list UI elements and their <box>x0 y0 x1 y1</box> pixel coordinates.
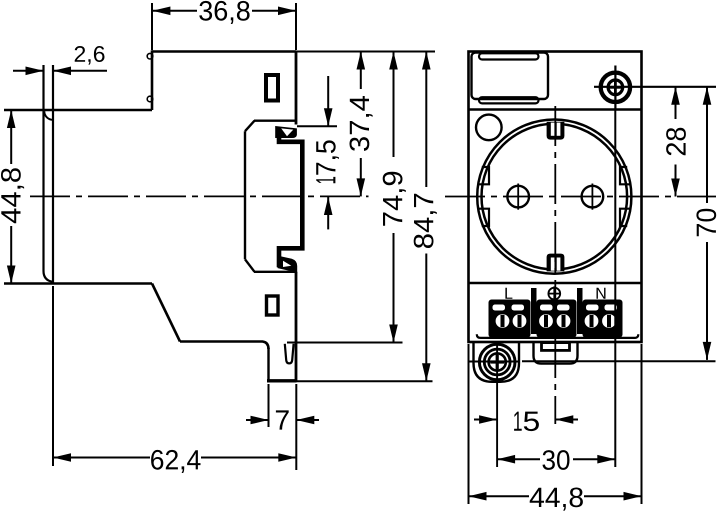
terminal screws group 3 <box>585 314 599 328</box>
vertical centerline of front view <box>554 106 556 424</box>
front plate rear face (right line of 2.6 wall) <box>52 65 54 284</box>
divider line below top section <box>469 108 642 110</box>
wire release slots group 1 <box>493 305 506 311</box>
horizontal centerline of left view <box>30 195 369 197</box>
dimension 28 (top screw to centerline) <box>666 87 686 197</box>
lower rectangular vent hole <box>267 296 279 315</box>
recess top chamfer <box>245 121 255 132</box>
left pin hole <box>507 186 529 208</box>
extension from top screw down to 30 dim <box>614 110 616 467</box>
dimension 7 (latch foot width) <box>246 384 319 470</box>
DIN-rail recess top edge <box>254 119 296 121</box>
dimension 2,6 (front plate thickness) <box>13 46 107 75</box>
terminal block group 2 (earth) <box>537 300 577 338</box>
top clip slot left <box>551 123 555 136</box>
clip lower slider bar <box>479 97 539 103</box>
DIN rail clip housing top-left <box>472 53 549 100</box>
terminal screws group 1 <box>496 314 510 328</box>
top earth contact clip (black U) <box>547 122 565 140</box>
small locating dot lower <box>147 96 153 102</box>
fixed claw over rail top flange <box>275 126 297 138</box>
dimension 36,8 (top width) <box>152 1 296 50</box>
recess rear wall <box>244 131 246 259</box>
right edge lower part <box>295 272 298 381</box>
top screw horizontal centerline / 28-70 extension <box>594 86 716 88</box>
terminal block group 1 (L) <box>489 300 531 338</box>
right pin hole vertical tick <box>591 184 593 210</box>
bottom clip slot left <box>551 258 555 271</box>
body outline rectangle <box>469 52 642 343</box>
center wire guide tab <box>534 342 578 364</box>
divider line socket plate bottom <box>469 282 642 284</box>
bottom surface of front-plate section (y=283.5), with extension <box>4 282 152 284</box>
diagonal from plate bottom to lower body <box>152 284 180 342</box>
extension line at latch foot level <box>288 380 433 382</box>
dimension 70 (top screw to bottom screw) <box>696 87 716 360</box>
latch foot spring slot <box>285 344 294 364</box>
left lower earth notch <box>478 209 490 226</box>
claw white notch <box>281 128 293 136</box>
top edge of module body <box>152 50 296 53</box>
top screw cross slot vertical <box>614 80 617 95</box>
bottom screw circles <box>479 344 515 380</box>
socket recess outer circle <box>477 120 631 274</box>
extension line at body bottom level <box>287 342 403 344</box>
dimension 37,4 (top to centerline) <box>350 52 373 197</box>
upper rectangular vent hole <box>266 75 278 101</box>
body right extension down to 44,8 <box>641 344 643 504</box>
wire guide inner slot <box>542 343 570 351</box>
right upper earth notch <box>620 167 632 184</box>
dimension 62,4 (overall depth) <box>53 286 296 473</box>
right edge upper part <box>295 52 298 125</box>
bottom screw cross slot <box>490 360 504 363</box>
dimension 44,8 (front plate height) <box>1 110 24 284</box>
left pin hole vertical tick <box>517 184 519 210</box>
top surface of front-plate section (y=110), with extension to 44.8 dim <box>4 109 152 111</box>
DIN rail 35mm profile (thick section) <box>279 129 302 268</box>
dimension 84,7 (top to latch foot) <box>414 52 437 382</box>
clip upper slider bar <box>479 53 539 59</box>
extension line at bottom screw level <box>522 360 716 362</box>
separator bar 1 <box>531 288 537 334</box>
extension from bottom screw down / 15-30 left <box>496 344 498 468</box>
recess bottom edge <box>254 271 296 273</box>
right view: front of socket module <box>469 52 717 343</box>
wire release slots group 2 <box>540 305 553 311</box>
latch white notch <box>283 261 291 267</box>
top mounting screw outer circle <box>601 73 630 102</box>
left upper earth notch <box>478 167 490 184</box>
top screw vertical center tick <box>614 66 616 111</box>
left view: side profile of DIN-rail socket module <box>4 50 369 381</box>
terminal screws group 2 <box>539 314 553 328</box>
small locating dot upper <box>147 53 153 59</box>
cable tray line with upturned ends <box>477 334 639 338</box>
wire release slots group 3 <box>586 305 599 311</box>
bottom surface of body with fillet into latch foot <box>180 342 269 350</box>
bottom fixing screw boss <box>474 342 520 382</box>
horizontal centerline of front view <box>445 196 716 198</box>
earth symbol <box>548 288 560 300</box>
top screw cross slot <box>608 86 623 89</box>
front plate top inner fillet <box>44 111 53 120</box>
dimension 44,8 (overall width) <box>469 488 642 511</box>
dimension 17,5 (rail seat to centerline) <box>297 76 339 229</box>
label L <box>505 288 512 299</box>
body left extension down to 44,8 <box>468 344 470 504</box>
bottom clip slot right <box>557 258 561 271</box>
dimension 15 (screw to center) <box>474 412 578 432</box>
socket recess inner circle <box>482 124 628 270</box>
latch foot left edge <box>267 348 269 381</box>
separator bar 2 <box>577 288 583 334</box>
top screw inner circle <box>608 80 623 95</box>
sliding latch below rail bottom flange <box>278 256 298 274</box>
small round hole upper left <box>476 115 502 141</box>
recess bottom chamfer <box>245 259 255 272</box>
bottom screw horizontal tick <box>469 361 521 363</box>
extension line at top edge level <box>296 51 435 53</box>
right pin hole <box>582 186 604 208</box>
right lower earth notch <box>620 209 632 226</box>
dimension 74,9 (top to body bottom) <box>383 52 406 343</box>
label N <box>597 288 606 299</box>
upper left edge of body <box>151 50 154 110</box>
front plate front face (2.6 mm wall, left line) with bottom fillet <box>44 65 53 282</box>
top clip slot right <box>557 123 561 136</box>
terminal block group 3 (N) <box>583 300 623 338</box>
latch foot bottom (7 mm wide tab) <box>267 379 297 382</box>
dimension 30 (screw to screw horizontal) <box>497 450 615 470</box>
bottom earth contact clip (black U) <box>547 254 565 272</box>
